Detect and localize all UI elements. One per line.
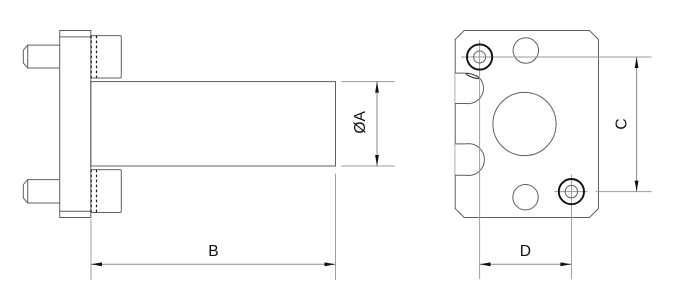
dimension C line — [636, 57, 638, 192]
dimension C arrow up — [635, 57, 639, 68]
bolt top (side view) — [23, 45, 59, 68]
dimension A extension lines — [342, 82, 395, 166]
bolt bottom (side view) — [23, 180, 59, 203]
boss top (side view) — [91, 36, 122, 78]
boss bottom (side view) — [91, 170, 122, 213]
svg-text:ØA: ØA — [352, 110, 369, 133]
hidden dashed lines bottom boss — [91, 170, 96, 213]
flange plate (side view) — [60, 31, 91, 218]
screw bottom-right centerline vertical (also D extension) — [570, 174, 572, 279]
svg-text:D: D — [520, 243, 531, 260]
cylindrical bar (side view) — [91, 82, 336, 166]
dimension A arrow down — [375, 155, 379, 166]
dimension B arrow right — [325, 262, 336, 266]
screw top-left inner circle — [474, 51, 486, 63]
svg-text:C: C — [614, 118, 631, 129]
screw centerline vertical left (also D extension) — [479, 40, 481, 279]
flange chamfer line bottom — [60, 210, 91, 212]
screw bottom-right outer circle — [559, 179, 584, 204]
hidden dashed lines top boss — [91, 36, 96, 78]
dimension B line — [91, 263, 336, 265]
screw bottom-right inner circle — [565, 185, 577, 197]
central bore circle — [493, 92, 556, 155]
dimension D line — [480, 263, 572, 265]
hole top-right — [513, 38, 538, 63]
notch bottom (front view) — [455, 144, 484, 176]
dimension B arrow left — [91, 262, 102, 266]
notch top (front view) — [455, 73, 483, 104]
notch chamfer ellipse detail — [466, 72, 480, 79]
screw top-left outer circle — [467, 44, 492, 69]
plate outline (front view) — [455, 31, 598, 218]
dimension C arrow down — [635, 181, 639, 192]
dimension D arrow left — [480, 262, 491, 266]
screw bottom-right crosshair horizontal — [554, 191, 587, 193]
hole bottom-left — [513, 185, 538, 210]
dimension A line — [376, 82, 378, 166]
dimension D arrow right — [560, 262, 571, 266]
dimension A arrow up — [375, 82, 379, 93]
screw top-left crosshair horizontal (merges into C extension line) — [461, 56, 652, 58]
dimension C extension line bottom — [596, 191, 652, 193]
flange chamfer line top — [60, 36, 91, 38]
dimension B extension lines — [91, 174, 336, 280]
svg-text:B: B — [208, 243, 218, 260]
